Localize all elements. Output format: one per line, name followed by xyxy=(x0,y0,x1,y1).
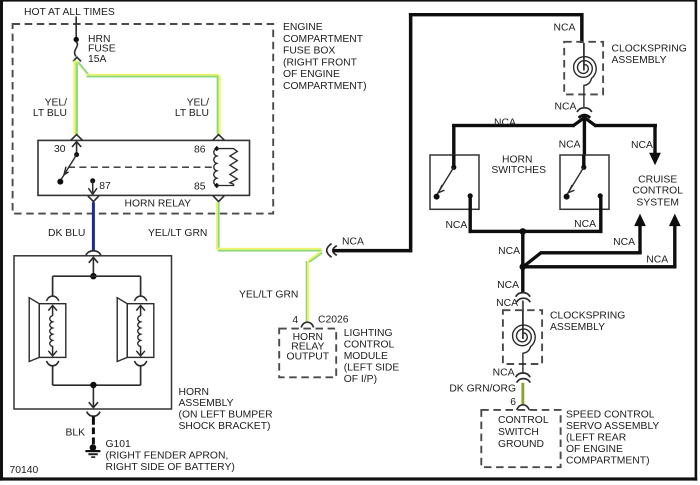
svg-text:NCA: NCA xyxy=(613,237,635,248)
svg-text:NCA: NCA xyxy=(496,298,518,309)
svg-text:HORN: HORN xyxy=(179,387,209,398)
svg-text:NCA: NCA xyxy=(445,220,467,231)
svg-text:COMPARTMENT): COMPARTMENT) xyxy=(283,81,367,92)
svg-text:CONTROL: CONTROL xyxy=(344,339,395,350)
svg-text:MODULE: MODULE xyxy=(344,351,388,362)
svg-text:(RIGHT FENDER APRON,: (RIGHT FENDER APRON, xyxy=(106,451,229,462)
svg-text:SWITCH: SWITCH xyxy=(498,427,539,438)
svg-text:OF ENGINE: OF ENGINE xyxy=(283,69,340,80)
svg-text:C2026: C2026 xyxy=(318,314,349,325)
svg-text:NCA: NCA xyxy=(646,254,668,265)
svg-text:OUTPUT: OUTPUT xyxy=(287,351,330,362)
svg-text:NCA: NCA xyxy=(554,22,576,33)
svg-text:YEL/: YEL/ xyxy=(45,97,68,108)
svg-text:GROUND: GROUND xyxy=(498,439,544,450)
svg-text:30: 30 xyxy=(54,144,66,155)
svg-text:SPEED CONTROL: SPEED CONTROL xyxy=(566,409,655,420)
svg-text:RIGHT SIDE OF BATTERY): RIGHT SIDE OF BATTERY) xyxy=(106,462,235,473)
svg-text:ASSEMBLY: ASSEMBLY xyxy=(612,55,667,66)
svg-text:ASSEMBLY: ASSEMBLY xyxy=(550,322,605,333)
svg-text:OF I/P): OF I/P) xyxy=(344,374,377,385)
svg-text:YEL/LT GRN: YEL/LT GRN xyxy=(239,290,298,301)
svg-text:(RIGHT FRONT: (RIGHT FRONT xyxy=(283,57,358,68)
svg-text:4: 4 xyxy=(292,315,298,326)
svg-text:CONTROL: CONTROL xyxy=(632,185,683,196)
svg-text:SERVO ASSEMBLY: SERVO ASSEMBLY xyxy=(566,421,659,432)
svg-text:(LEFT REAR: (LEFT REAR xyxy=(566,432,626,443)
svg-text:15A: 15A xyxy=(88,54,107,65)
svg-text:(ON LEFT BUMPER: (ON LEFT BUMPER xyxy=(179,410,273,421)
svg-text:6: 6 xyxy=(510,397,516,408)
svg-text:CONTROL: CONTROL xyxy=(498,415,549,426)
svg-text:COMPARTMENT: COMPARTMENT xyxy=(283,34,364,45)
svg-text:OF ENGINE: OF ENGINE xyxy=(566,444,623,455)
svg-text:LIGHTING: LIGHTING xyxy=(344,328,393,339)
svg-text:DK BLU: DK BLU xyxy=(48,228,85,239)
svg-text:HORN: HORN xyxy=(502,154,532,165)
svg-text:YEL/LT GRN: YEL/LT GRN xyxy=(148,228,207,239)
svg-text:CRUISE: CRUISE xyxy=(638,174,677,185)
svg-text:87: 87 xyxy=(99,181,111,192)
svg-text:SHOCK BRACKET): SHOCK BRACKET) xyxy=(179,421,271,432)
svg-text:BLK: BLK xyxy=(65,427,85,438)
svg-text:YEL/: YEL/ xyxy=(187,97,210,108)
svg-text:CLOCKSPRING: CLOCKSPRING xyxy=(550,310,625,321)
svg-text:SYSTEM: SYSTEM xyxy=(636,197,679,208)
svg-text:NCA: NCA xyxy=(493,367,515,378)
svg-text:NCA: NCA xyxy=(559,140,581,151)
svg-text:ASSEMBLY: ASSEMBLY xyxy=(179,398,234,409)
svg-text:NCA: NCA xyxy=(342,236,364,247)
svg-text:86: 86 xyxy=(194,145,206,156)
svg-text:LT BLU: LT BLU xyxy=(175,108,209,119)
svg-text:DK GRN/ORG: DK GRN/ORG xyxy=(449,383,516,394)
svg-text:COMPARTMENT): COMPARTMENT) xyxy=(566,455,650,466)
svg-text:FUSE BOX: FUSE BOX xyxy=(283,46,335,57)
svg-text:85: 85 xyxy=(194,181,206,192)
svg-text:70140: 70140 xyxy=(10,465,39,476)
svg-text:HORN RELAY: HORN RELAY xyxy=(125,198,192,209)
svg-text:NCA: NCA xyxy=(574,219,596,230)
svg-text:NCA: NCA xyxy=(497,280,519,291)
svg-text:(LEFT SIDE: (LEFT SIDE xyxy=(344,362,400,373)
svg-text:G101: G101 xyxy=(106,439,132,450)
svg-text:SWITCHES: SWITCHES xyxy=(491,165,546,176)
svg-text:CLOCKSPRING: CLOCKSPRING xyxy=(612,43,687,54)
svg-text:NCA: NCA xyxy=(494,117,516,128)
svg-text:NCA: NCA xyxy=(631,140,653,151)
svg-text:LT BLU: LT BLU xyxy=(33,108,67,119)
svg-text:ENGINE: ENGINE xyxy=(283,22,323,33)
svg-text:HOT AT ALL TIMES: HOT AT ALL TIMES xyxy=(24,7,115,18)
svg-text:NCA: NCA xyxy=(555,101,577,112)
svg-text:NCA: NCA xyxy=(498,246,520,257)
